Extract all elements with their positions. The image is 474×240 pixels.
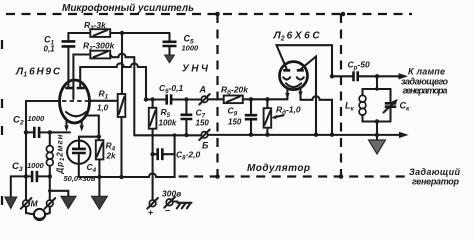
microphone M [26, 207, 50, 220]
wire: grid 1 lead (left of tube) [26, 101, 60, 176]
wire: R1 bottom to ground rail [120, 117, 122, 177]
choke Др1 2мгн [46, 132, 66, 199]
capacitor C3 1000 [12, 161, 50, 182]
tank circuit top/bottom wires [363, 89, 391, 122]
Л2 cathode arcs [283, 77, 304, 79]
wire: tank feed [376, 76, 378, 89]
Л1 anode 1 plate bar [65, 87, 73, 90]
Л1 cathode arc [66, 112, 86, 116]
section boundary: top dashed line [6, 13, 412, 15]
diode tube U2 Л2 6Х6С envelope [280, 62, 308, 90]
resistor R4 2k (cathode bias) [96, 137, 116, 197]
Л1 grid (dashed) [62, 100, 89, 102]
junction Cр node [330, 74, 334, 78]
svg-text:0,1: 0,1 [44, 45, 56, 54]
svg-text:УНЧ: УНЧ [182, 64, 209, 75]
wire: R3 node to C5 (y=33) [68, 32, 169, 34]
svg-text:1000: 1000 [182, 44, 200, 53]
junction on dashed boundary (217.5,14) [215, 12, 220, 17]
section boundary: bottom dashed line [179, 175, 409, 177]
wire: anode2 node to C6 and point A [146, 98, 201, 100]
svg-text:генератора: генератора [403, 86, 448, 96]
electrolytic capacitor C4 50,0x30в [64, 141, 97, 184]
svg-text:2k: 2k [106, 152, 116, 161]
Л2 heater lead left with arrow [285, 88, 289, 100]
wire: node A to Rб [208, 98, 224, 100]
capacitor C8 2,0 (decoupling) [150, 148, 200, 161]
microphone connector left [21, 176, 32, 208]
inductor Lк [345, 89, 366, 122]
svg-text:100k: 100k [159, 119, 177, 128]
triode tube U1 Л1 6Н9С envelope [60, 80, 90, 123]
svg-text:1000: 1000 [28, 114, 46, 123]
label 300в [162, 189, 181, 199]
ground (under R4) [91, 196, 107, 209]
node Б connector [199, 130, 209, 151]
wire: R3 column down to R1 top (crossings are hops above) [121, 33, 123, 94]
capacitor C2 1000 (grid 1 coupling) [13, 114, 70, 138]
svg-text:К лампе: К лампе [408, 67, 445, 77]
node A connector [199, 85, 210, 105]
svg-text:М: М [31, 199, 39, 209]
svg-text:+: + [148, 208, 153, 218]
section boundary: vertical dashed line (Модулятор / Задающий генератор) [340, 14, 342, 177]
wire: output arrow to oscillator tube [377, 73, 408, 79]
svg-text:Б: Б [202, 141, 209, 151]
wire: R2 right, step down, hop over R1 column, to long vertical [110, 54, 134, 58]
junction C3 right / choke bottom [48, 174, 52, 178]
svg-text:300в: 300в [162, 189, 181, 199]
svg-text:Л16Н9С: Л16Н9С [15, 66, 61, 79]
label Л2 6Х6С [273, 30, 321, 43]
capacitor C6 0,1 (coupling) [159, 83, 184, 105]
resistor R2 300k [83, 41, 116, 59]
svg-text:1,0: 1,0 [97, 104, 109, 113]
junction C2 left [24, 130, 28, 134]
wire: C3 left branch to ground [11, 176, 26, 197]
Л1 heater lead with arrow (right) [80, 121, 84, 132]
wire: anode 2 up and right with two hops [80, 63, 146, 99]
ground (left, under C3) [5, 197, 17, 209]
wire: Rб to tube heater lead [243, 98, 288, 100]
junction on dashed boundary (217.5,176.5) [215, 174, 220, 179]
svg-text:50,0×30в: 50,0×30в [64, 174, 96, 183]
svg-text:150: 150 [196, 119, 210, 128]
junction C3 left [24, 174, 28, 178]
ground (oscillator tank) [369, 135, 386, 154]
wire: cathode to R4/C4 node [87, 116, 99, 137]
svg-text:−: − [165, 206, 170, 216]
wire: mic return branch to ground [50, 191, 69, 196]
junction R3/R1 node [120, 31, 124, 35]
section boundary: vertical dashed line (УНЧ / Модулятор) [216, 14, 218, 177]
label М [31, 199, 39, 209]
microphone connector right [45, 198, 56, 209]
resistor R6 (Rб) 20k [221, 85, 249, 104]
ground under C5 [165, 55, 175, 63]
wire: heater right to Cр column with hop [301, 96, 333, 135]
capacitor C9 150 [228, 99, 258, 134]
resistor R3 3k [84, 20, 110, 37]
resistor R1 1,0 [97, 89, 125, 118]
Л2 heater lead right with arrow [298, 88, 302, 100]
wire: R2 left to grid [73, 55, 90, 100]
resistor R5 100k (anode load) [149, 100, 177, 200]
Л1 anode 2 plate bar [77, 87, 85, 90]
wire: tank to ground bus [376, 122, 378, 135]
svg-text:А: А [199, 85, 207, 95]
wire: anode top polygon to Cр column [277, 45, 333, 76]
svg-text:150: 150 [228, 118, 242, 127]
label Л1 6Н9С [15, 66, 61, 79]
+300V input connector [147, 198, 158, 218]
junction on dashed boundary (343,14) [341, 12, 346, 17]
wire: node to C4 top [79, 137, 99, 141]
svg-text:Модулятор: Модулятор [247, 163, 310, 174]
capacitor C1 0,1 (anode 1 feedback) [44, 33, 76, 87]
resistor Rд 1,0 [264, 99, 301, 134]
wire: Л2 right lead down to bus (hop crossed) [300, 57, 316, 135]
svg-text:генератор: генератор [412, 177, 460, 187]
Л2 heater arc [286, 83, 301, 87]
junction on dashed boundary (341,176.5) [339, 174, 344, 179]
svg-text:Задающий: Задающий [409, 167, 461, 177]
wire: grid 2 lead (right of tube) to R1 [89, 100, 117, 102]
capacitor C5 1000 with ground [163, 33, 200, 55]
wire: long vertical from R2 right down to ground bus corner [133, 57, 135, 135]
svg-text:Л26Х6С: Л26Х6С [273, 30, 321, 43]
ground (mic return) [61, 196, 76, 208]
section boundary: left edge dashes [1, 40, 3, 206]
ground rail y=177 (cathode returns) with hop over +300 column [79, 135, 175, 177]
svg-text:Микрофонный усилитель: Микрофонный усилитель [62, 2, 194, 14]
variable capacitor Cк [384, 89, 411, 122]
capacitor Cр 50 (output coupling) [332, 60, 377, 82]
Л2 anode plates [283, 69, 304, 72]
svg-text:Др12мгн: Др12мгн [56, 134, 67, 174]
junction choke top [48, 130, 52, 134]
ground bus (y=135) with end arrow [134, 132, 408, 138]
capacitor C7 150 (to ground bus) [181, 100, 210, 135]
svg-text:1000: 1000 [27, 161, 45, 170]
Л1 heater lead with arrow (left) [64, 121, 68, 132]
-300V connector with chassis ground [164, 197, 191, 216]
